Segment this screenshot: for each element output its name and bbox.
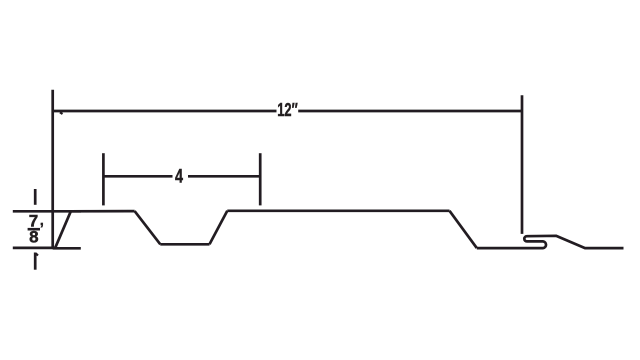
svg-text:,: ,	[40, 212, 44, 228]
svg-text:8: 8	[29, 228, 38, 247]
7/8in dimension top tick line	[13, 210, 81, 213]
panel left diagonal edge	[55, 211, 71, 248]
12in dimension line right segment	[298, 110, 522, 113]
7/8in dimension vertical line lower segment	[34, 253, 37, 270]
panel bottom foot segment left	[53, 247, 81, 250]
groove left diagonal wall	[135, 211, 161, 244]
4in dimension line left segment	[103, 175, 172, 178]
svg-text:4: 4	[175, 167, 183, 188]
12in dimension left extension line	[51, 90, 54, 249]
4in dimension left extension line	[102, 153, 105, 205]
tick mark on lower 7/8 vertical	[36, 254, 38, 256]
fraction bar of 7/8 label	[28, 228, 40, 231]
tick mark at start of 12in dimension line	[60, 112, 63, 114]
panel right diagonal edge	[450, 211, 477, 248]
4in dimension line right segment	[188, 175, 260, 178]
panel top surface left of groove	[71, 210, 135, 213]
7/8in dimension bottom tick line	[13, 247, 56, 250]
12in dimension line left segment	[53, 110, 277, 113]
7/8in dimension vertical line upper segment	[34, 189, 37, 205]
panel bottom run and S-lock hook	[477, 236, 624, 248]
svg-text:12″: 12″	[277, 100, 298, 120]
groove right diagonal wall	[210, 211, 228, 245]
4in dimension right extension line	[259, 153, 262, 205]
12in dimension right extension line	[521, 95, 524, 234]
panel top surface right of groove	[227, 209, 449, 212]
groove bottom	[160, 243, 209, 246]
